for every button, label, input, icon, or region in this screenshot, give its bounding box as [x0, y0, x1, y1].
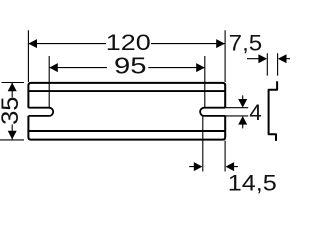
dim 35 line	[11, 83, 13, 140]
rail top bend line	[28, 90, 225, 92]
arrowhead 120 left	[28, 39, 37, 48]
arrowhead 35 down	[8, 131, 17, 140]
arrowhead 4 top (points down)	[238, 99, 247, 108]
side view hat profile	[269, 81, 278, 141]
arrowhead 14,5 right (points left)	[226, 162, 235, 171]
dim 7,5 extension lines	[267, 53, 277, 75]
dim 120 line	[28, 43, 224, 45]
left slot	[28, 108, 53, 116]
arrowhead 35 up	[8, 83, 17, 92]
dim 35 extension lines	[0, 83, 24, 140]
dim 4 arrow tails	[242, 95, 244, 128]
dim 7,5 arrow tails	[247, 58, 290, 60]
dim 14,5 arrow tails	[189, 166, 238, 168]
arrowhead 4 bottom (points up)	[238, 116, 247, 125]
dim 95 extension lines	[49, 56, 205, 172]
svg-text:95: 95	[114, 53, 147, 79]
svg-text:14,5: 14,5	[228, 170, 277, 195]
dim 120 extension lines	[28, 30, 225, 82]
dim 95 line	[49, 67, 205, 69]
svg-text:7,5: 7,5	[229, 30, 263, 55]
svg-text:35: 35	[0, 97, 24, 125]
dim 14,5 extension line right	[224, 141, 226, 172]
svg-text:4: 4	[249, 100, 261, 125]
arrowhead 120 right	[216, 39, 225, 48]
right slot	[200, 108, 225, 116]
rail bottom bend line	[28, 130, 225, 132]
arrowhead 95 left	[49, 63, 58, 72]
dim 4 extension lines	[225, 108, 248, 116]
arrowhead 7,5 left (points right)	[258, 54, 267, 63]
svg-text:120: 120	[106, 30, 151, 55]
rail outline (front view)	[28, 83, 225, 140]
arrowhead 14,5 left (points right)	[194, 162, 203, 171]
arrowhead 95 right	[196, 63, 205, 72]
arrowhead 7,5 right (points left)	[278, 54, 287, 63]
